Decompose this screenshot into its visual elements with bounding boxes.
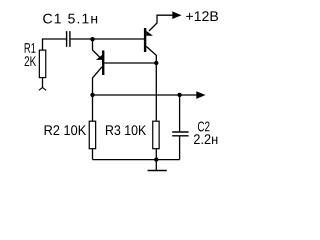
label C1 value (43, 14, 97, 24)
transistor Q1 base wire (104, 62, 156, 64)
label R1 value (25, 56, 36, 66)
transistor Q1 emitter wire (93, 39, 100, 57)
transistor Q2 emitter wire (149, 15, 173, 31)
capacitor C2 (172, 132, 188, 136)
wire C1 to Q2 base (node A) (71, 38, 144, 40)
input chevron terminal (39, 87, 43, 90)
transistor Q1 base bar (102, 51, 104, 76)
bottom rail wire (93, 159, 180, 161)
ground stub wire (155, 160, 157, 171)
resistor R1 (39, 50, 45, 78)
label C2 value (194, 134, 217, 144)
node GND junction dot (154, 157, 158, 161)
label R1 (25, 43, 36, 53)
capacitor C1 (67, 31, 70, 47)
transistor Q1 emitter arrowhead (96, 55, 102, 60)
+12V supply arrow (172, 11, 181, 19)
resistor R2 (89, 121, 95, 149)
node B junction dot (Q1 base / Q2 collector) (154, 61, 158, 65)
transistor Q1 collector wire (93, 67, 103, 95)
label R2 value (45, 125, 86, 135)
resistor R3 (153, 121, 159, 149)
wire R1 bottom (42, 78, 44, 88)
label C2 (198, 122, 210, 132)
wire R3 bottom (155, 149, 157, 160)
label +12V supply (186, 11, 218, 21)
transistor Q2 base bar (144, 28, 146, 52)
wire R1 top to C1 (43, 39, 67, 50)
node A junction dot (90, 37, 94, 41)
wire C2 bottom (179, 137, 181, 160)
wire C2 top (179, 95, 181, 131)
output wire (93, 94, 197, 96)
label R3 value (106, 125, 146, 135)
node C2 tap junction dot (177, 93, 181, 97)
transistor Q2 emitter arrowhead (146, 31, 153, 36)
wire R2 bottom (92, 149, 94, 160)
wire R2 top (92, 95, 94, 121)
node OUT junction dot (90, 93, 94, 97)
output arrow (196, 91, 205, 99)
ground (148, 170, 167, 172)
transistor Q2 collector wire (146, 46, 156, 120)
